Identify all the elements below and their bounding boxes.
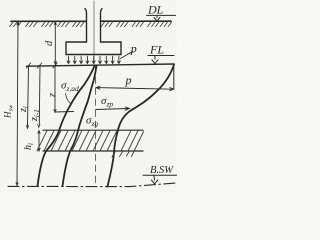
right vertical edge of p diagram [173, 64, 175, 89]
FL line (foundation level) [27, 64, 175, 66]
contact pressure arrows under footing [67, 56, 120, 63]
d bottom arrow [54, 61, 56, 64]
column left wall [85, 9, 87, 43]
column right wall [101, 9, 103, 43]
z_i top tick [26, 63, 30, 68]
ground line right of column [101, 20, 171, 22]
B.SW dash-dot boundary line [8, 183, 176, 187]
z_i dimension line [28, 66, 29, 127]
d dimension line [54, 22, 56, 65]
diagram axis dashed below FL [95, 66, 97, 187]
Hsw bottom arrow [16, 183, 18, 186]
h_i dimension line [38, 131, 40, 152]
leader for sigma_z,ad [66, 94, 72, 104]
z_i-1 dimension line [38, 66, 41, 125]
ground hatching right [101, 22, 171, 27]
DL marker [147, 15, 176, 21]
leader to p label (top) [121, 51, 134, 58]
band bottom line [43, 150, 143, 152]
z level line left segment [55, 111, 74, 114]
z bottom arrow [54, 110, 56, 113]
sigma_zp stress curve [108, 65, 175, 187]
z_i-1 bottom arrow [38, 125, 40, 128]
h_i bottom arrow [38, 148, 40, 151]
hatched soil layer band: top line [43, 129, 143, 131]
Hsw top arrow [17, 22, 19, 25]
ground hatching left [10, 22, 84, 27]
column axis centerline [93, 1, 95, 64]
FL marker [148, 56, 174, 64]
Hsw dimension line [17, 22, 18, 186]
z_i-1 top tick [37, 63, 41, 68]
footing outline [66, 42, 121, 55]
B.SW marker [143, 175, 177, 184]
sigma_zg stress curve [63, 66, 97, 186]
d top arrow [54, 22, 56, 25]
band hatching [37, 130, 144, 157]
sigma_zp dim line with right arrow [96, 107, 130, 110]
h_i top arrow [38, 131, 40, 134]
z top tick [53, 63, 57, 68]
paper grain overlay [0, 0, 1, 1]
z_i bottom arrow [26, 126, 28, 129]
z dimension line [54, 66, 56, 111]
sigma_z,ad stress curve [38, 66, 95, 186]
p dimension line with arrows [96, 86, 174, 91]
ground line left of column (DL level) [11, 20, 86, 22]
